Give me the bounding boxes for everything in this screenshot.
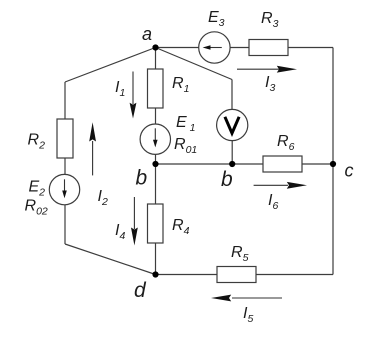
wire node b to R6 through node b2 [156,163,264,165]
label R02 [25,198,48,218]
resistor R4 body [148,204,164,243]
source E3 arrow [203,45,222,50]
node b2 label [221,168,233,191]
node d label [134,279,147,302]
label E1 [176,114,196,134]
resistor R3 body [249,40,288,56]
label R3 [261,10,279,30]
wire R1 bottom to E1 top [155,108,157,124]
label R1 [172,75,189,95]
wire voltmeter branch vertical [231,80,233,110]
current arrow I6 [254,182,307,212]
current arrow I1 [115,72,136,119]
wire E1 bottom to node b [155,154,157,164]
wire R6 to node c [302,163,333,165]
wire node d diagonal to left branch [65,244,156,275]
wire R3 to top-right corner [288,47,333,49]
label R2 [28,132,46,152]
label R5 [231,244,249,264]
label R6 [277,133,295,153]
wire R2 top to upper-left corner [64,82,66,119]
svg-text:c: c [345,161,354,181]
label R01 [174,136,197,156]
wire diagonal node a to voltmeter branch [156,48,233,80]
source E3 circle [199,32,230,63]
wire left vertical to E2 bottom [64,205,66,244]
wire E3 to R3 [230,47,249,49]
label R4 [172,217,190,237]
wire R5 to node d [156,274,218,276]
source E1 circle [140,124,170,154]
node a label [142,24,152,44]
node a [152,44,158,50]
wire node a down to R1 [155,48,157,70]
resistor R2 body [57,119,73,158]
wire a to E3 [156,47,199,49]
voltmeter V letter [225,117,239,133]
current arrow I4 [115,197,138,246]
voltmeter circle [217,109,248,140]
node d [152,271,158,277]
wire diagonal upper-left corner to node a [65,48,156,83]
node b [152,161,158,167]
resistor R1 body [148,69,164,108]
node b label [136,167,148,190]
source E2 arrow [62,179,67,198]
label E3 [208,9,225,29]
node c label [345,161,354,181]
wire voltmeter bottom to node b2 [231,141,233,164]
source E1 arrow [153,128,158,147]
svg-text:a: a [142,24,152,44]
current arrow I3 [237,66,297,94]
svg-text:b: b [136,167,148,190]
wire R4 bottom to node d [155,243,157,275]
svg-text:b: b [221,168,233,191]
svg-text:d: d [134,279,147,302]
label E2 [29,179,46,199]
current arrow I5 [211,295,282,325]
wire right vertical through node c [332,48,334,275]
resistor R6 body [263,156,302,172]
wire node b down to R4 [155,164,157,204]
node b2 [229,161,235,167]
wire E2 top to R2 bottom [64,158,66,174]
current arrow I2 [89,122,108,208]
resistor R5 body [217,267,256,283]
node c [330,161,336,167]
wire bottom-right corner to R5 [256,274,333,276]
source E2 circle [49,174,79,204]
